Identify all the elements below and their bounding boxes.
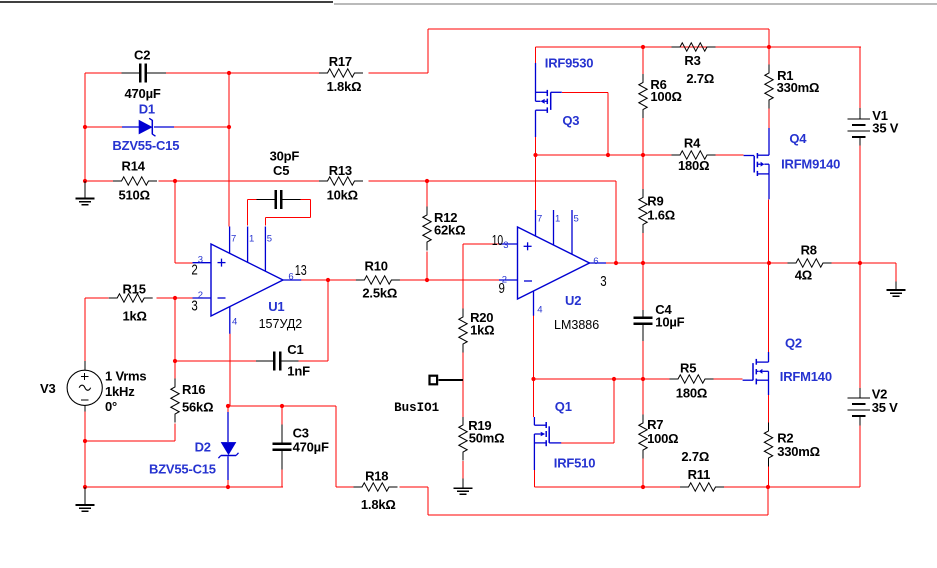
svg-text:6: 6 [288, 271, 293, 282]
svg-text:7: 7 [231, 234, 236, 245]
svg-text:2: 2 [198, 290, 203, 301]
svg-text:56kΩ: 56kΩ [182, 400, 213, 415]
svg-text:3: 3 [600, 274, 606, 290]
svg-text:7: 7 [537, 214, 542, 225]
svg-text:BZV55-C15: BZV55-C15 [149, 461, 216, 476]
svg-text:35 V: 35 V [872, 400, 898, 415]
svg-text:R18: R18 [365, 468, 388, 483]
svg-text:C3: C3 [293, 425, 309, 440]
svg-text:330mΩ: 330mΩ [777, 444, 820, 459]
svg-text:V3: V3 [40, 381, 56, 396]
svg-text:R11: R11 [688, 467, 711, 482]
svg-text:R10: R10 [365, 259, 388, 274]
svg-text:R3: R3 [684, 53, 700, 68]
svg-text:IRF510: IRF510 [554, 456, 595, 471]
svg-text:1.8kΩ: 1.8kΩ [327, 79, 362, 94]
svg-text:Q4: Q4 [789, 131, 807, 146]
svg-text:C2: C2 [134, 48, 150, 63]
svg-text:0°: 0° [105, 399, 117, 414]
svg-text:1kΩ: 1kΩ [123, 309, 147, 324]
svg-text:R14: R14 [122, 159, 146, 174]
svg-text:180Ω: 180Ω [678, 158, 709, 173]
svg-text:1.6Ω: 1.6Ω [647, 207, 675, 222]
svg-text:Q1: Q1 [555, 399, 572, 414]
svg-text:470µF: 470µF [293, 439, 329, 454]
svg-text:1kΩ: 1kΩ [470, 323, 494, 338]
svg-text:4: 4 [232, 317, 237, 328]
svg-text:50mΩ: 50mΩ [469, 431, 505, 446]
svg-text:R15: R15 [123, 282, 146, 297]
svg-text:1 Vrms: 1 Vrms [105, 369, 146, 384]
svg-text:R5: R5 [680, 360, 696, 375]
svg-text:D1: D1 [139, 102, 155, 117]
svg-text:13: 13 [295, 263, 307, 279]
svg-text:180Ω: 180Ω [676, 385, 707, 400]
svg-text:U1: U1 [268, 299, 284, 314]
svg-text:3: 3 [503, 240, 508, 251]
svg-text:5: 5 [267, 234, 272, 245]
svg-text:D2: D2 [195, 439, 211, 454]
svg-text:1kHz: 1kHz [105, 384, 135, 399]
svg-text:2.7Ω: 2.7Ω [681, 449, 709, 464]
svg-text:100Ω: 100Ω [647, 431, 678, 446]
svg-text:C5: C5 [273, 163, 289, 178]
svg-text:BZV55-C15: BZV55-C15 [112, 138, 179, 153]
svg-text:IRF9530: IRF9530 [545, 55, 593, 70]
svg-text:R9: R9 [647, 193, 663, 208]
svg-text:2: 2 [502, 275, 507, 286]
svg-text:R4: R4 [684, 136, 701, 151]
svg-text:510Ω: 510Ω [119, 188, 150, 203]
svg-text:Q3: Q3 [562, 113, 579, 128]
svg-text:30pF: 30pF [270, 148, 300, 163]
svg-text:5: 5 [574, 214, 579, 225]
svg-text:1: 1 [249, 234, 254, 245]
svg-text:6: 6 [593, 256, 598, 267]
svg-text:IRFM140: IRFM140 [780, 369, 832, 384]
svg-text:330mΩ: 330mΩ [777, 80, 820, 95]
svg-text:100Ω: 100Ω [650, 89, 681, 104]
svg-text:1.8kΩ: 1.8kΩ [361, 497, 396, 512]
svg-text:10kΩ: 10kΩ [327, 188, 358, 203]
svg-text:470µF: 470µF [125, 86, 161, 101]
svg-text:3: 3 [198, 254, 203, 265]
svg-text:10µF: 10µF [655, 315, 684, 330]
svg-text:4: 4 [537, 304, 542, 315]
svg-text:157УД2: 157УД2 [259, 317, 303, 331]
svg-text:62kΩ: 62kΩ [434, 223, 465, 238]
svg-text:U2: U2 [565, 293, 581, 308]
svg-text:10: 10 [492, 233, 504, 249]
svg-text:4Ω: 4Ω [795, 268, 812, 283]
svg-text:2.7Ω: 2.7Ω [686, 71, 714, 86]
svg-text:35 V: 35 V [872, 120, 898, 135]
svg-text:R13: R13 [329, 163, 352, 178]
svg-text:2.5kΩ: 2.5kΩ [362, 285, 397, 300]
svg-text:R16: R16 [182, 382, 205, 397]
svg-text:BusIO1: BusIO1 [394, 401, 439, 415]
svg-text:IRFM9140: IRFM9140 [781, 156, 840, 171]
svg-text:1nF: 1nF [287, 363, 310, 378]
svg-text:Q2: Q2 [785, 336, 802, 351]
svg-text:C1: C1 [287, 342, 303, 357]
svg-text:1: 1 [555, 214, 560, 225]
svg-text:R17: R17 [329, 54, 352, 69]
svg-text:R8: R8 [801, 243, 817, 258]
svg-text:LM3886: LM3886 [554, 318, 599, 332]
